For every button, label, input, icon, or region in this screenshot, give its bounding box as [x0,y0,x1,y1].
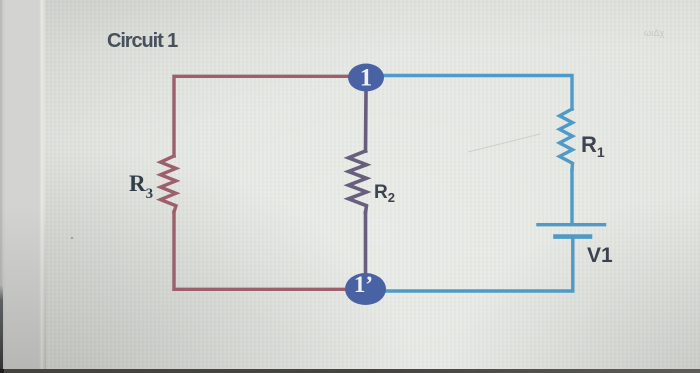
svg-text:1’: 1’ [354,272,373,297]
svg-text:1: 1 [360,65,373,92]
